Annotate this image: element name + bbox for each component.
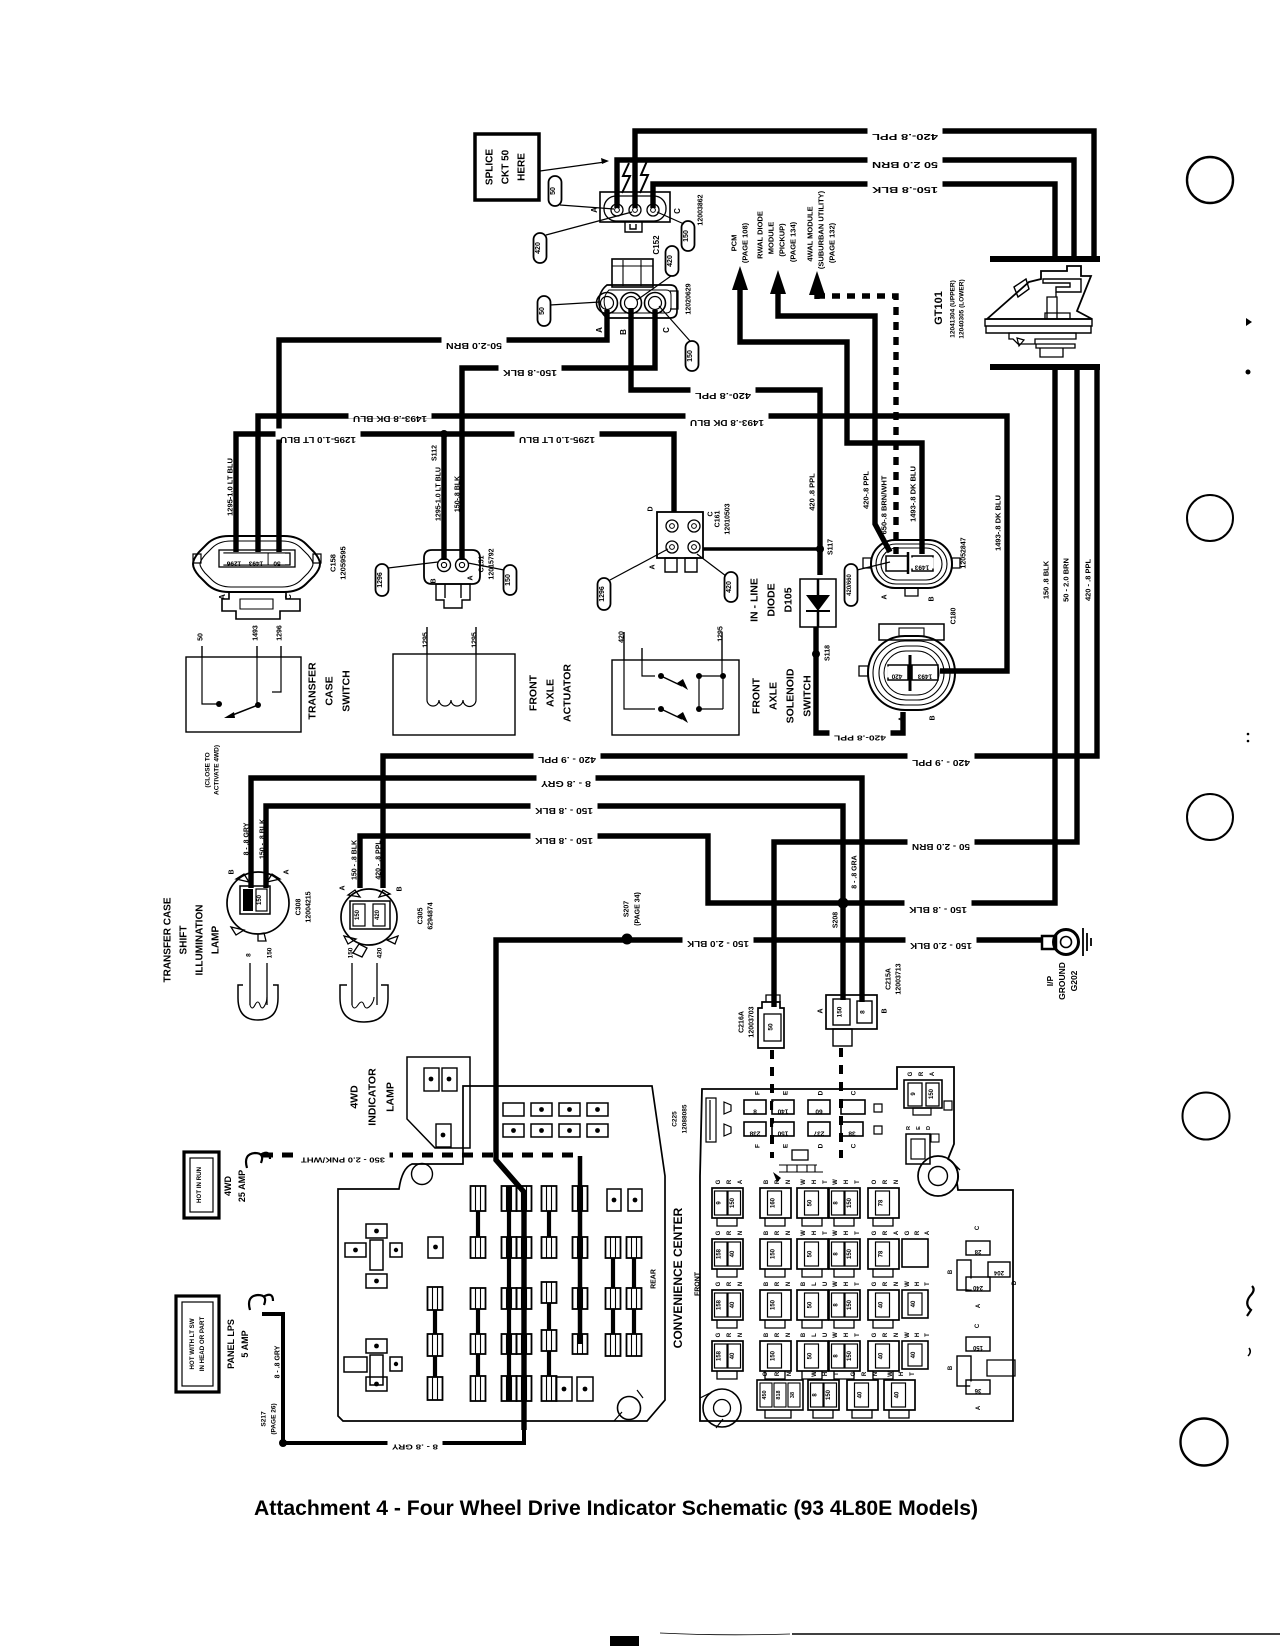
svg-text:D: D bbox=[926, 1126, 932, 1130]
svg-text:150-.8 BLK: 150-.8 BLK bbox=[454, 476, 461, 512]
4WD indicator lamp connector bbox=[407, 1057, 470, 1148]
oval label 420 (12020629-B) bbox=[637, 246, 679, 300]
svg-text:158: 158 bbox=[717, 1350, 723, 1361]
svg-text:12003703: 12003703 bbox=[749, 1006, 756, 1037]
svg-text:AXLE: AXLE bbox=[545, 679, 557, 707]
svg-text:W: W bbox=[833, 1230, 839, 1236]
svg-text:D: D bbox=[648, 506, 655, 511]
margin speck marks bbox=[1246, 318, 1254, 1356]
svg-text:238: 238 bbox=[749, 1129, 760, 1136]
svg-text:150: 150 bbox=[683, 230, 690, 242]
svg-text:160: 160 bbox=[771, 1197, 777, 1208]
svg-text:(PAGE 132): (PAGE 132) bbox=[828, 222, 837, 263]
svg-text:40: 40 bbox=[911, 1300, 917, 1307]
svg-text:FRONT: FRONT bbox=[751, 677, 763, 714]
svg-text:150: 150 bbox=[266, 947, 273, 958]
svg-text:150: 150 bbox=[771, 1299, 777, 1310]
connector C158 12059595 bbox=[193, 536, 321, 619]
svg-text:1493: 1493 bbox=[914, 563, 929, 570]
svg-text:40: 40 bbox=[730, 1301, 736, 1308]
svg-text:C: C bbox=[975, 1323, 981, 1328]
svg-text:150: 150 bbox=[847, 1350, 853, 1361]
svg-text:G: G bbox=[716, 1332, 722, 1337]
svg-text:N: N bbox=[894, 1282, 900, 1286]
svg-text:4WAL MODULE: 4WAL MODULE bbox=[806, 206, 815, 261]
front panel right column small fuses 150/32/36 bbox=[948, 1323, 1015, 1410]
svg-text:W: W bbox=[905, 1332, 911, 1338]
svg-text:8: 8 bbox=[753, 1107, 757, 1114]
svg-text:420 - .9 PPL: 420 - .9 PPL bbox=[912, 758, 970, 767]
wire 50-2.0 BRN (GT101 bundle to C216A) bbox=[774, 367, 1077, 1002]
svg-text:H: H bbox=[844, 1231, 850, 1235]
svg-text:B: B bbox=[619, 329, 628, 335]
svg-text:N: N bbox=[787, 1372, 793, 1376]
svg-text:C: C bbox=[673, 208, 682, 214]
label IN-LINE DIODE D105 bbox=[749, 578, 795, 622]
svg-text:H: H bbox=[899, 1372, 905, 1376]
svg-text:U: U bbox=[823, 1282, 829, 1286]
svg-text:R: R bbox=[919, 1071, 925, 1076]
svg-text:R: R bbox=[775, 1230, 781, 1235]
svg-text:N: N bbox=[894, 1180, 900, 1184]
svg-text:F: F bbox=[754, 1091, 761, 1095]
svg-text:8 - .8 GRY: 8 - .8 GRY bbox=[392, 1443, 438, 1452]
oval label 150 (C152-C) bbox=[657, 212, 695, 251]
svg-text:H: H bbox=[844, 1333, 850, 1337]
svg-text:150 - .8 BLK: 150 - .8 BLK bbox=[535, 806, 593, 815]
svg-text:D105: D105 bbox=[783, 587, 795, 612]
svg-text:R: R bbox=[727, 1179, 733, 1184]
svg-text:W: W bbox=[833, 1179, 839, 1185]
svg-text:B: B bbox=[430, 578, 437, 583]
label FRONT AXLE ACTUATOR bbox=[528, 664, 574, 722]
svg-text:T: T bbox=[910, 1372, 916, 1376]
svg-text:150: 150 bbox=[847, 1197, 853, 1208]
svg-text:1295: 1295 bbox=[471, 632, 478, 648]
label (CLOSE TO ACTIVATE 4WD) bbox=[204, 745, 220, 795]
svg-text:12020629: 12020629 bbox=[686, 283, 693, 314]
svg-text:T: T bbox=[925, 1333, 931, 1337]
svg-text:A: A bbox=[650, 564, 657, 569]
svg-text:420: 420 bbox=[376, 947, 383, 958]
wire 150-.8 BLK (GT101 bundle to S208 leg) bbox=[351, 367, 1055, 914]
svg-text:150: 150 bbox=[355, 909, 361, 920]
svg-text:T: T bbox=[823, 1180, 829, 1184]
rear panel fuse strip column 3 bbox=[502, 1186, 517, 1401]
svg-text:R: R bbox=[915, 1230, 921, 1235]
svg-text:C: C bbox=[708, 511, 715, 516]
svg-text:GT101: GT101 bbox=[933, 291, 945, 325]
svg-text:S207: S207 bbox=[624, 901, 631, 917]
svg-text:150: 150 bbox=[972, 1344, 983, 1350]
svg-text:50: 50 bbox=[808, 1199, 814, 1206]
svg-text:1295-1.0 LT BLU: 1295-1.0 LT BLU bbox=[280, 435, 356, 444]
svg-text:40: 40 bbox=[730, 1250, 736, 1257]
svg-text:50: 50 bbox=[808, 1352, 814, 1359]
svg-text:12003713: 12003713 bbox=[896, 963, 903, 994]
GT101 transfer case drawing bbox=[933, 266, 1092, 357]
svg-text:G: G bbox=[905, 1230, 911, 1235]
svg-text:SOLENOID: SOLENOID bbox=[785, 668, 797, 723]
svg-text:I/P: I/P bbox=[1045, 975, 1055, 986]
svg-text:1295-1.0 LT BLU: 1295-1.0 LT BLU bbox=[435, 467, 442, 521]
svg-text:C225: C225 bbox=[671, 1111, 678, 1127]
svg-text:E: E bbox=[782, 1090, 789, 1095]
svg-text:N: N bbox=[786, 1180, 792, 1184]
wire 50-2.0 BRN (12020629-A to C158) bbox=[279, 310, 607, 552]
svg-text:C151: C151 bbox=[478, 556, 485, 573]
svg-text:G: G bbox=[851, 1371, 857, 1376]
svg-text:W: W bbox=[833, 1281, 839, 1287]
svg-text:A: A bbox=[818, 1008, 825, 1013]
convenience center rear panel outline bbox=[338, 1086, 665, 1421]
lamp socket C308 12004215 bbox=[227, 869, 290, 941]
svg-text:E: E bbox=[916, 1126, 922, 1130]
svg-text:DIODE: DIODE bbox=[766, 583, 778, 616]
svg-text:W: W bbox=[888, 1371, 894, 1377]
svg-text:1296: 1296 bbox=[599, 586, 606, 602]
svg-text:R: R bbox=[727, 1332, 733, 1337]
connector 12052847 bbox=[863, 540, 960, 602]
svg-text:TRANSFER: TRANSFER bbox=[307, 662, 319, 720]
vertical wire labels 420/650/1493 above connector 12052847 bbox=[862, 466, 918, 534]
svg-text:A: A bbox=[339, 885, 346, 890]
rear panel fuse cluster lower-left bbox=[344, 1339, 402, 1391]
svg-text:50: 50 bbox=[808, 1301, 814, 1308]
svg-text:40: 40 bbox=[879, 1352, 885, 1359]
svg-text:W: W bbox=[905, 1281, 911, 1287]
svg-text:N: N bbox=[738, 1282, 744, 1286]
svg-text:T: T bbox=[855, 1333, 861, 1337]
ring terminal and ground symbol I/P GROUND G202 bbox=[1042, 928, 1091, 956]
svg-text:38: 38 bbox=[790, 1392, 796, 1398]
svg-text:150: 150 bbox=[826, 1389, 832, 1400]
splice S208 bbox=[833, 898, 849, 929]
front axle solenoid switch box bbox=[612, 626, 739, 735]
svg-text:150: 150 bbox=[929, 1088, 935, 1099]
svg-text:R: R bbox=[727, 1281, 733, 1286]
svg-text:L: L bbox=[812, 1333, 818, 1337]
svg-text:D: D bbox=[1012, 1280, 1018, 1285]
front panel connector grid bbox=[712, 1179, 916, 1418]
bottom scan bar bbox=[610, 1636, 639, 1646]
svg-text:FRONT: FRONT bbox=[528, 674, 540, 711]
svg-text:150: 150 bbox=[847, 1299, 853, 1310]
oval label 420 (C152-B) bbox=[534, 212, 633, 263]
svg-text:R: R bbox=[906, 1126, 912, 1130]
svg-text:R: R bbox=[727, 1230, 733, 1235]
page punch hole 3 bbox=[1187, 794, 1233, 840]
svg-text:R: R bbox=[883, 1230, 889, 1235]
front panel RED cavity bbox=[906, 1126, 939, 1164]
svg-text:CKT 50: CKT 50 bbox=[501, 149, 512, 184]
svg-text:PCM: PCM bbox=[730, 235, 739, 252]
svg-text:G: G bbox=[872, 1281, 878, 1286]
svg-text:C: C bbox=[975, 1225, 981, 1230]
svg-text:420 - .9 PPL: 420 - .9 PPL bbox=[538, 755, 596, 764]
svg-text:S117: S117 bbox=[828, 539, 835, 555]
svg-text:C308: C308 bbox=[295, 899, 302, 916]
svg-text:ILLUMINATION: ILLUMINATION bbox=[195, 905, 206, 976]
svg-text:HOT IN RUN: HOT IN RUN bbox=[196, 1166, 203, 1203]
svg-text:204: 204 bbox=[993, 1269, 1004, 1275]
svg-text:(PAGE 108): (PAGE 108) bbox=[741, 222, 750, 263]
rear panel fuse strip column 6 (350 feed) bbox=[573, 1156, 588, 1354]
svg-text:A: A bbox=[894, 1230, 900, 1235]
label TRANSFER CASE SWITCH bbox=[307, 662, 353, 720]
rear panel fuse strip column 7 bbox=[606, 1237, 621, 1356]
svg-text:420: 420 bbox=[375, 909, 381, 920]
svg-text:HOT WITH LT SW: HOT WITH LT SW bbox=[189, 1318, 196, 1369]
wire 420-.8 PPL (12020629-B to S117/diode) bbox=[631, 308, 820, 575]
svg-text:G: G bbox=[716, 1281, 722, 1286]
svg-text:N: N bbox=[786, 1333, 792, 1337]
rear panel fuse strip column 4 (150 BLK feed) bbox=[517, 1186, 532, 1401]
svg-text:LAMP: LAMP bbox=[385, 1082, 397, 1112]
connector C180 bbox=[859, 624, 955, 722]
svg-text:C180: C180 bbox=[951, 608, 958, 625]
svg-text:O: O bbox=[872, 1179, 878, 1184]
svg-text:R: R bbox=[883, 1332, 889, 1337]
svg-text:B: B bbox=[930, 715, 937, 720]
splice S207 (PAGE 34) bbox=[622, 892, 642, 944]
rear panel fuse strip column 8 bbox=[627, 1237, 642, 1356]
illumination lamp bulb bbox=[238, 947, 278, 1020]
svg-text:B: B bbox=[948, 1365, 954, 1370]
svg-text:1493-.8 DK BLU: 1493-.8 DK BLU bbox=[690, 418, 764, 427]
svg-text:N: N bbox=[786, 1282, 792, 1286]
svg-text:78: 78 bbox=[879, 1250, 885, 1257]
svg-text:(PAGE 134): (PAGE 134) bbox=[789, 221, 798, 262]
svg-text:(PAGE 34): (PAGE 34) bbox=[635, 892, 642, 926]
svg-text:INDICATOR: INDICATOR bbox=[367, 1068, 379, 1126]
page punch hole 2 bbox=[1187, 495, 1233, 541]
svg-text:S208: S208 bbox=[833, 912, 840, 928]
svg-text:150: 150 bbox=[505, 574, 512, 586]
wire 150-.8 BLK (C308-A to C215A-A) bbox=[259, 800, 843, 1001]
svg-text:A: A bbox=[218, 594, 227, 600]
svg-text:1493-.8 DK BLU: 1493-.8 DK BLU bbox=[994, 495, 1003, 551]
svg-text:8 - .8 GRY: 8 - .8 GRY bbox=[243, 822, 250, 855]
svg-text:ACTIVATE 4WD): ACTIVATE 4WD) bbox=[213, 745, 220, 795]
svg-text:50 2.0 BRN: 50 2.0 BRN bbox=[872, 160, 938, 169]
wire 150-.8 BLK (C152-C to GT101 bundle) bbox=[653, 179, 1055, 259]
svg-text:1296: 1296 bbox=[276, 625, 283, 641]
label 4WD INDICATOR LAMP bbox=[349, 1068, 397, 1126]
svg-text:140: 140 bbox=[777, 1107, 788, 1114]
oval label 1296 (C161-A) bbox=[598, 549, 669, 610]
leader arrow from SPLICE box to CKT 50 wire bbox=[540, 158, 609, 171]
svg-text:B: B bbox=[882, 1008, 889, 1013]
svg-text:C152: C152 bbox=[652, 235, 661, 255]
splice symbol (lightning bolts) at C152 bbox=[622, 161, 648, 193]
svg-text:IN - LINE: IN - LINE bbox=[749, 578, 761, 622]
svg-text:12003862: 12003862 bbox=[698, 194, 705, 225]
svg-text:T: T bbox=[855, 1231, 861, 1235]
wire 1493-.8 DK BLU (C158 to C180-B) bbox=[258, 408, 1007, 672]
svg-text:W: W bbox=[812, 1371, 818, 1377]
svg-text:G: G bbox=[716, 1179, 722, 1184]
svg-text:S217: S217 bbox=[260, 1411, 267, 1427]
svg-text:(CLOSE TO: (CLOSE TO bbox=[204, 752, 211, 787]
svg-text:REAR: REAR bbox=[651, 1269, 658, 1289]
wire 420-.8 PPL (D105 to C180-A) bbox=[816, 627, 903, 743]
wire 1295-1.0 LT BLU (C158 to S112 to C161-D) bbox=[226, 429, 674, 553]
svg-text:SPLICE: SPLICE bbox=[485, 149, 496, 185]
oval label 150 (12020629-C) bbox=[659, 306, 699, 371]
front axle actuator box bbox=[393, 627, 515, 735]
rear panel fuse cluster upper-left bbox=[345, 1224, 402, 1288]
svg-text:150: 150 bbox=[847, 1248, 853, 1259]
svg-text:350 - 2.0 PNK/WHT: 350 - 2.0 PNK/WHT bbox=[300, 1156, 385, 1165]
oval label 50 (12020629-A) bbox=[538, 296, 601, 326]
oval label 1296 (C151-B) bbox=[376, 562, 439, 596]
svg-text:G: G bbox=[872, 1230, 878, 1235]
svg-text:420-.8 PPL: 420-.8 PPL bbox=[833, 734, 886, 743]
svg-text:Attachment 4 - Four Wheel Driv: Attachment 4 - Four Wheel Drive Indicato… bbox=[254, 1497, 978, 1520]
wire 420-.8 PPL (C152-B to GT101 bundle) bbox=[635, 126, 1094, 259]
svg-text:G: G bbox=[908, 1071, 914, 1076]
svg-text:1296: 1296 bbox=[226, 559, 241, 566]
in-line diode D105 box bbox=[800, 579, 836, 627]
vertical bundle labels 150/50/420 right side bbox=[1042, 558, 1093, 602]
wire 150-2.0 BLK (ground run with S207) bbox=[496, 933, 1042, 1431]
svg-text:8: 8 bbox=[245, 953, 252, 957]
svg-text:1493: 1493 bbox=[248, 559, 263, 566]
svg-text:420 - .8 PPL: 420 - .8 PPL bbox=[375, 840, 382, 880]
svg-text:150: 150 bbox=[257, 894, 263, 905]
svg-text:(SUBURBAN UTILITY): (SUBURBAN UTILITY) bbox=[817, 190, 826, 269]
svg-text:H: H bbox=[844, 1282, 850, 1286]
svg-text:8 - .8 GRA: 8 - .8 GRA bbox=[852, 855, 859, 888]
4WD indicator lamp bulb bbox=[340, 947, 388, 1022]
svg-text:12015792: 12015792 bbox=[488, 548, 495, 579]
svg-text:150 - .8 BLK: 150 - .8 BLK bbox=[535, 836, 593, 845]
front panel WHT cavity row3-4 extra bbox=[902, 1281, 931, 1369]
svg-text:420: 420 bbox=[667, 255, 674, 267]
splice S117 bbox=[816, 539, 835, 555]
svg-text:420 - .8 PPL: 420 - .8 PPL bbox=[1084, 559, 1093, 602]
svg-text:W: W bbox=[801, 1179, 807, 1185]
rear panel fuse strip column 5 bbox=[542, 1186, 557, 1401]
svg-text:8: 8 bbox=[859, 1010, 866, 1014]
dashed wire C215A to fuse block bbox=[839, 1048, 843, 1158]
svg-text:818: 818 bbox=[776, 1390, 782, 1399]
splice S112 bbox=[431, 430, 448, 461]
svg-text:H: H bbox=[844, 1180, 850, 1184]
connector C161 12010503 bbox=[648, 506, 715, 572]
rear panel dotted cavities right bbox=[556, 1189, 642, 1401]
svg-text:AXLE: AXLE bbox=[768, 682, 780, 710]
svg-text:C216A: C216A bbox=[739, 1011, 746, 1033]
svg-text:B: B bbox=[929, 596, 936, 601]
svg-text:B: B bbox=[948, 1269, 954, 1274]
svg-text:450: 450 bbox=[762, 1390, 768, 1399]
svg-text:A: A bbox=[976, 1405, 982, 1410]
svg-text:N: N bbox=[738, 1333, 744, 1337]
svg-text:1295-1.0 LT BLU: 1295-1.0 LT BLU bbox=[519, 435, 595, 444]
svg-text:SWITCH: SWITCH bbox=[802, 675, 814, 716]
svg-text:50: 50 bbox=[197, 633, 204, 641]
svg-text:C305: C305 bbox=[417, 908, 424, 925]
svg-text:1296: 1296 bbox=[377, 572, 384, 588]
svg-text:A: A bbox=[899, 716, 906, 721]
rear panel fuse strip column 2 bbox=[471, 1186, 486, 1401]
svg-text:25 AMP: 25 AMP bbox=[237, 1170, 247, 1202]
oval label 420/660 (12052847-A) bbox=[845, 562, 891, 606]
svg-text:R: R bbox=[862, 1371, 868, 1376]
svg-text:150 - .8 BLK: 150 - .8 BLK bbox=[351, 840, 358, 880]
svg-text:C161: C161 bbox=[715, 511, 722, 528]
svg-text:6294874: 6294874 bbox=[427, 902, 434, 929]
svg-text:U: U bbox=[823, 1333, 829, 1337]
svg-text:C158: C158 bbox=[329, 554, 338, 572]
svg-text:150: 150 bbox=[777, 1129, 788, 1136]
oval label 50 (C152-A) bbox=[549, 176, 615, 209]
front panel small bracket bits bbox=[773, 1150, 823, 1182]
svg-text:H: H bbox=[812, 1180, 818, 1184]
svg-text:R: R bbox=[775, 1281, 781, 1286]
svg-text:150-.8 BLK: 150-.8 BLK bbox=[872, 185, 938, 194]
svg-text:C: C bbox=[284, 594, 293, 600]
svg-text:28: 28 bbox=[974, 1248, 981, 1254]
wire 420 (C161-B to S117) bbox=[703, 547, 818, 551]
svg-text:150 - 2.0 BLK: 150 - 2.0 BLK bbox=[910, 941, 972, 950]
svg-text:(PAGE 26): (PAGE 26) bbox=[270, 1403, 277, 1434]
lamp socket C305 6294874 bbox=[339, 885, 403, 957]
convenience center front panel outline bbox=[700, 1067, 1013, 1428]
module arrow PCM (PAGE 108) bbox=[730, 222, 922, 554]
svg-text:12040305 (LOWER): 12040305 (LOWER) bbox=[958, 279, 965, 338]
svg-text:1295-1.0 LT BLU: 1295-1.0 LT BLU bbox=[226, 458, 235, 516]
svg-text:R: R bbox=[775, 1179, 781, 1184]
svg-text:H: H bbox=[915, 1282, 921, 1286]
wire 1295-1.0 LT BLU (S112 to C151-B) bbox=[435, 434, 444, 560]
splice S217 (PAGE 26) bbox=[260, 1403, 287, 1447]
svg-text:PANEL LPS: PANEL LPS bbox=[226, 1319, 236, 1369]
page punch hole 5 bbox=[1181, 1419, 1228, 1466]
svg-text:B: B bbox=[764, 1230, 770, 1235]
svg-text:A: A bbox=[467, 575, 474, 580]
svg-text:E: E bbox=[782, 1143, 789, 1148]
svg-text:A: A bbox=[283, 869, 290, 874]
svg-text:G: G bbox=[716, 1230, 722, 1235]
svg-text:N: N bbox=[873, 1372, 879, 1376]
page punch hole 1 bbox=[1187, 157, 1233, 203]
rear panel upper fuse cavities bbox=[503, 1103, 608, 1137]
svg-text:B: B bbox=[764, 1179, 770, 1184]
connector C216A 12003703 bbox=[758, 995, 784, 1048]
svg-text:1493: 1493 bbox=[917, 672, 932, 679]
svg-text:IN HEAD OR PART: IN HEAD OR PART bbox=[199, 1317, 206, 1372]
svg-text:38: 38 bbox=[848, 1129, 856, 1136]
svg-text:T: T bbox=[823, 1231, 829, 1235]
svg-text:50 - 2.0 BRN: 50 - 2.0 BRN bbox=[912, 842, 970, 851]
page punch hole 4 bbox=[1183, 1093, 1230, 1140]
svg-text:420: 420 bbox=[891, 672, 902, 679]
svg-text:N: N bbox=[738, 1231, 744, 1235]
connector C152 lower half 12020629 bbox=[595, 259, 678, 335]
label FRONT AXLE SOLENOID SWITCH bbox=[751, 668, 814, 723]
svg-text:C: C bbox=[850, 1143, 857, 1148]
svg-text:A: A bbox=[882, 594, 889, 599]
svg-text:8 - .8 GRY: 8 - .8 GRY bbox=[274, 1345, 281, 1378]
svg-text:150 - 2.0 BLK: 150 - 2.0 BLK bbox=[687, 939, 749, 948]
svg-text:12059595: 12059595 bbox=[339, 546, 348, 579]
svg-text:50-2.0 BRN: 50-2.0 BRN bbox=[446, 341, 502, 350]
svg-text:G: G bbox=[872, 1332, 878, 1337]
label TRANSFER CASE SHIFT ILLUMINATION LAMP bbox=[163, 897, 222, 982]
